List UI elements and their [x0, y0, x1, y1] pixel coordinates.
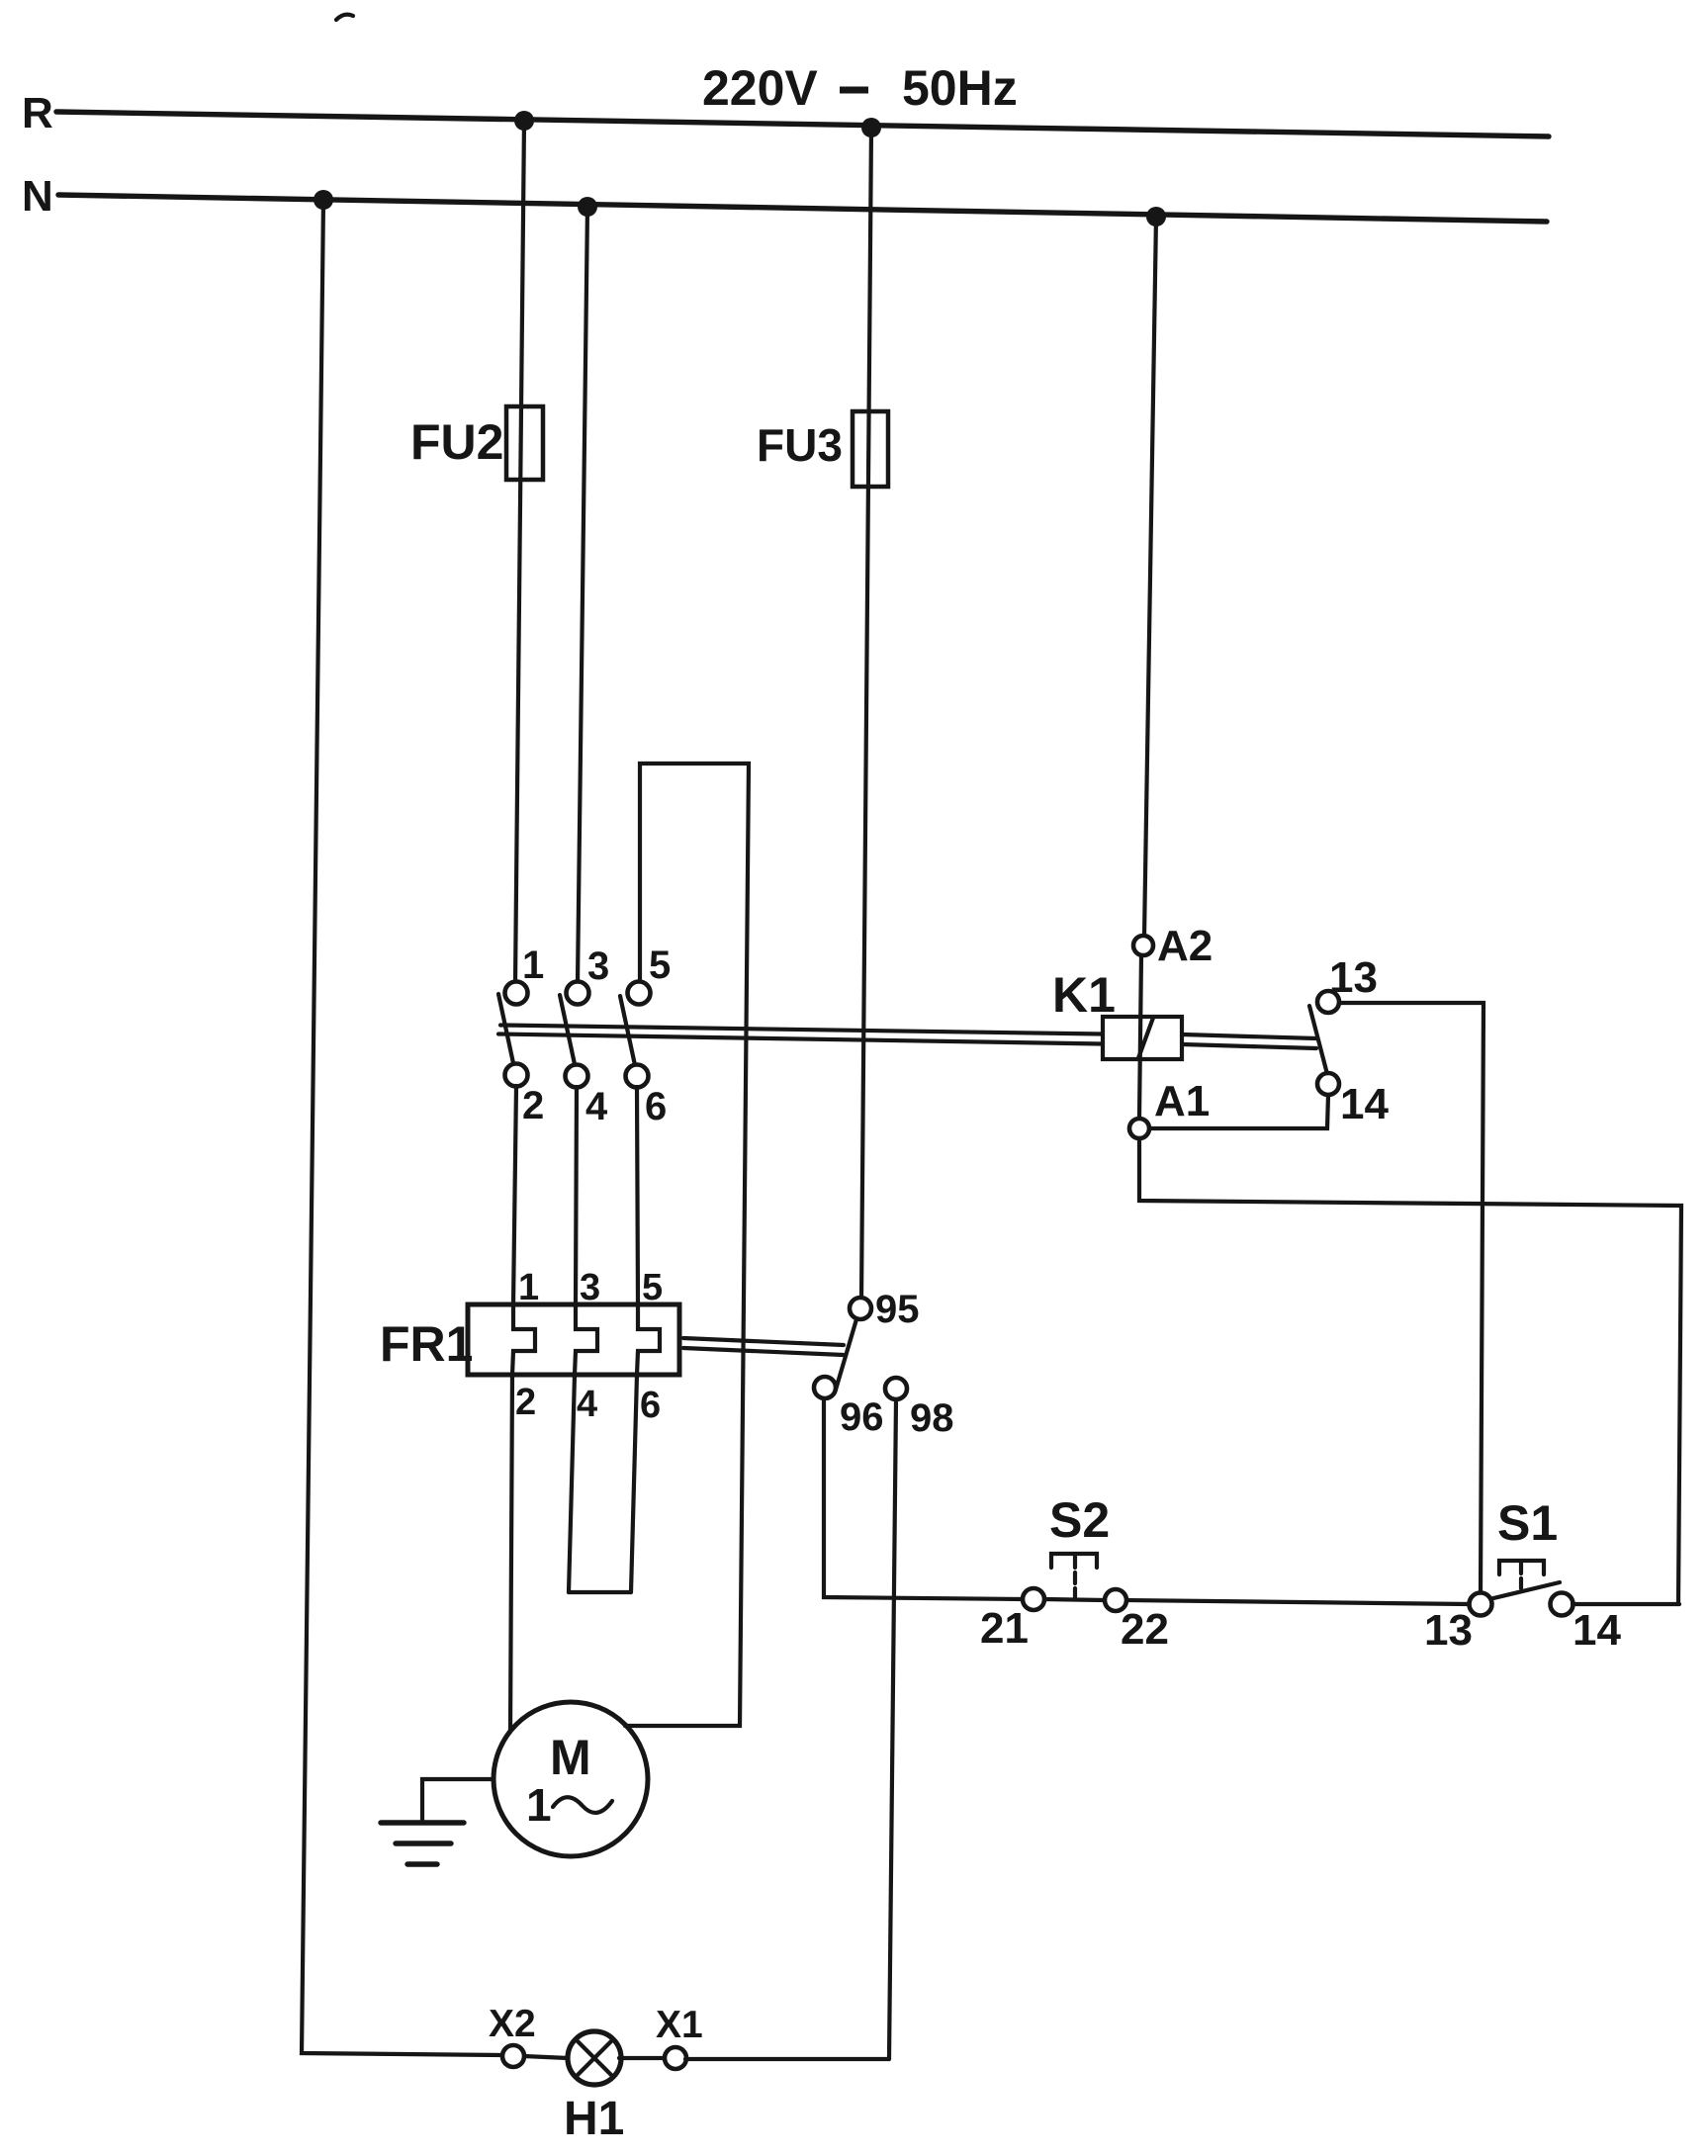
ground — [381, 1779, 494, 1864]
svg-text:22: 22 — [1121, 1605, 1169, 1654]
junction R-FU2 — [514, 111, 534, 131]
wire N mid branch — [578, 207, 587, 983]
svg-text:M: M — [550, 1730, 591, 1785]
junction R-FU3 — [861, 118, 881, 137]
svg-text:3: 3 — [587, 944, 609, 988]
wire U link 4-6 — [569, 1590, 631, 1594]
wire 98 to lamp X1 — [889, 1399, 896, 2059]
svg-text:2: 2 — [522, 1084, 544, 1127]
svg-text:6: 6 — [640, 1385, 661, 1426]
wire K1 coil branch from N — [1144, 217, 1156, 937]
svg-text:14: 14 — [1340, 1080, 1389, 1128]
title 220V - 50Hz — [702, 60, 1018, 116]
wire R bus line — [56, 112, 1549, 136]
wire FR1-6 down — [631, 1375, 637, 1592]
overload relay FR1 box — [468, 1304, 679, 1375]
svg-text:N: N — [22, 172, 53, 221]
wire A1 to S1-14 — [1139, 1138, 1681, 1604]
wire FU2 branch — [515, 121, 524, 983]
FR1 heater 3-4 — [575, 1304, 597, 1375]
svg-text:4: 4 — [577, 1384, 597, 1425]
junction N-mid — [578, 197, 597, 217]
svg-text:A1: A1 — [1154, 1077, 1210, 1125]
lamp H1 — [568, 2031, 621, 2085]
svg-text:X2: X2 — [489, 2003, 536, 2045]
linkage K1 main lower — [498, 1034, 1102, 1044]
fuse FU2 — [506, 406, 543, 480]
wire contact4 to FR1 — [576, 1087, 577, 1304]
wire K1-13 to S1-13 — [1339, 1003, 1483, 1594]
wire loop over contact 5 to motor — [625, 764, 749, 1726]
svg-text:13: 13 — [1329, 953, 1378, 1002]
svg-text:H1: H1 — [564, 2093, 624, 2145]
svg-text:X1: X1 — [656, 2004, 703, 2046]
junction N-K1 — [1146, 207, 1166, 226]
wire K1-14 to A1 — [1149, 1095, 1328, 1128]
terminal A1 — [1129, 1119, 1149, 1138]
wire FR1-2 to motor — [510, 1375, 512, 1732]
svg-text:220V: 220V — [702, 60, 818, 116]
linkage K1 aux upper — [1183, 1034, 1316, 1038]
svg-text:50Hz: 50Hz — [902, 60, 1018, 116]
linkage FR1 lower — [683, 1348, 844, 1355]
svg-text:S2: S2 — [1049, 1492, 1110, 1548]
wire contact6 to FR1 — [637, 1087, 638, 1304]
motor M1 — [494, 1702, 648, 1856]
wire left branch N to lamp — [302, 200, 502, 2055]
contactor K1 pole 1-2 — [498, 982, 528, 1087]
svg-text:14: 14 — [1573, 1606, 1621, 1655]
wire contact2 to FR1 — [513, 1086, 516, 1304]
wire S2 to S1 — [1126, 1600, 1470, 1604]
svg-text:98: 98 — [910, 1396, 954, 1440]
svg-text:FR1: FR1 — [380, 1316, 473, 1372]
wire N bus line — [58, 195, 1547, 222]
linkage K1 main upper — [500, 1026, 1102, 1034]
wire S1-14 right — [1573, 1602, 1679, 1606]
terminal X1 — [665, 2047, 686, 2069]
linkage FR1 upper — [683, 1338, 844, 1345]
svg-text:S1: S1 — [1497, 1495, 1558, 1551]
junction N-left — [314, 190, 333, 210]
svg-text:96: 96 — [840, 1395, 884, 1439]
svg-text:R: R — [22, 89, 53, 137]
contact K1 13-14 — [1309, 991, 1339, 1095]
svg-text:3: 3 — [580, 1267, 600, 1308]
wire FR1-4 down — [569, 1375, 575, 1592]
linkage K1 aux lower — [1183, 1044, 1316, 1048]
FR1 heater 1-2 — [512, 1304, 535, 1375]
terminal X2 — [502, 2045, 524, 2067]
scan artifact top — [336, 15, 353, 20]
wire FU3 branch — [861, 128, 871, 1299]
FR1 heater 5-6 — [637, 1304, 660, 1375]
svg-text:5: 5 — [649, 943, 671, 987]
svg-text:6: 6 — [645, 1085, 667, 1128]
svg-text:4: 4 — [585, 1085, 608, 1128]
pushbutton S2 — [1023, 1554, 1126, 1611]
fuse FU3 — [853, 411, 888, 487]
wire X2 to lamp — [524, 2056, 568, 2058]
contactor K1 pole 3-4 — [560, 982, 589, 1088]
wire X1 right — [685, 2057, 889, 2061]
svg-text:2: 2 — [515, 1382, 536, 1423]
svg-text:FU3: FU3 — [757, 419, 843, 471]
wire lamp to X1 — [619, 2056, 664, 2060]
svg-text:1: 1 — [522, 943, 544, 987]
svg-text:5: 5 — [642, 1267, 663, 1308]
svg-text:21: 21 — [980, 1604, 1029, 1653]
contact FR1 95-96 — [814, 1298, 871, 1398]
svg-text:13: 13 — [1424, 1606, 1473, 1655]
terminal 98 — [885, 1378, 907, 1399]
terminal A2 — [1133, 936, 1153, 955]
contactor K1 pole 5-6 — [620, 982, 651, 1088]
svg-text:1: 1 — [526, 1779, 552, 1831]
svg-text:A2: A2 — [1157, 922, 1213, 970]
svg-text:95: 95 — [875, 1288, 920, 1331]
pushbutton S1 — [1470, 1561, 1573, 1616]
svg-text:K1: K1 — [1052, 967, 1116, 1023]
svg-text:1: 1 — [518, 1267, 539, 1308]
svg-text:FU2: FU2 — [410, 414, 503, 470]
contactor K1 coil — [1103, 955, 1182, 1119]
wire 96 to S2 — [824, 1398, 1023, 1599]
